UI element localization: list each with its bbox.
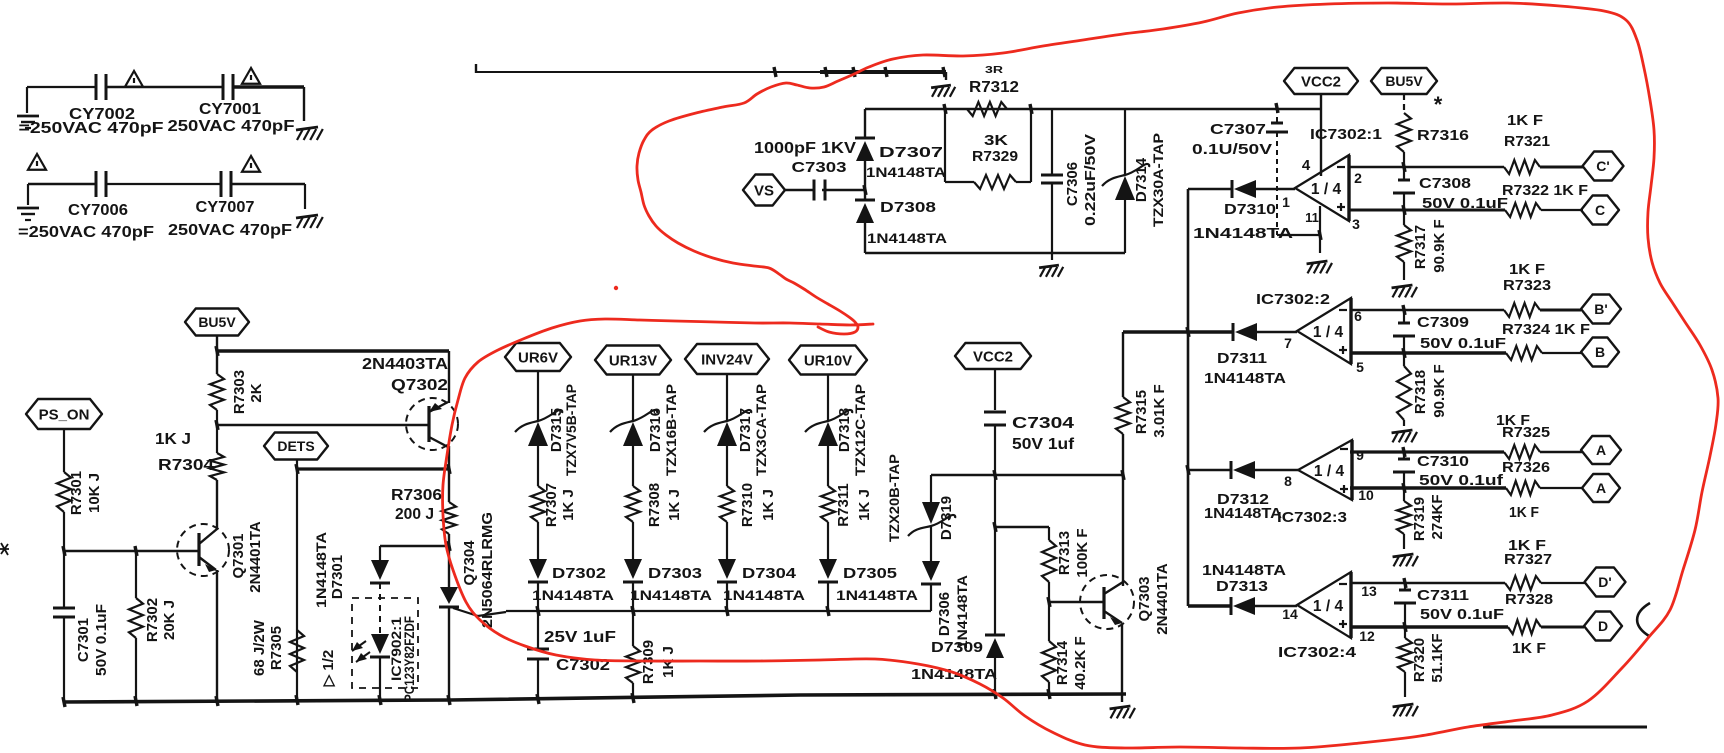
junction R7315 bottom [1122,470,1124,480]
svg-text:VCC2: VCC2 [973,348,1013,365]
wire box left vertical [944,109,946,182]
svg-text:A: A [1596,442,1606,458]
svg-text:D7306: D7306 [936,592,953,636]
junction ticks on top bus [774,67,776,77]
svg-text:274KF: 274KF [1429,494,1446,539]
paren mark [1637,603,1650,636]
svg-text:R7318: R7318 [1412,370,1429,414]
wire BU5V down [216,335,218,374]
resistor R7307 [531,486,545,522]
transistor Q7302 [406,398,458,450]
wire C7304 to node [994,425,996,475]
wire BU5V rail to Q7302 [217,349,449,352]
svg-text:B: B [1595,344,1605,360]
svg-text:0.22uF/50V: 0.22uF/50V [1082,134,1099,226]
optocoupler IC7902 LED [371,634,389,654]
svg-text:C7301: C7301 [75,618,92,662]
svg-text:14: 14 [1282,606,1298,622]
svg-text:D7314: D7314 [1133,157,1150,202]
svg-text:=250VAC 470pF: =250VAC 470pF [18,224,154,241]
wire R7323 to B' [1540,309,1581,312]
wire opto collector [380,545,449,547]
svg-text:2: 2 [1354,170,1362,186]
wire UR10V down [827,375,829,422]
svg-text:C7304: C7304 [1012,415,1074,432]
svg-text:R7304: R7304 [158,457,214,474]
diode D7307 [856,141,874,161]
wire D7313 to op-amp4 [1255,605,1297,608]
resistor R7312 [967,102,1007,116]
junction rail stage2 [1187,327,1189,337]
zener D7316 [610,410,657,432]
svg-text:2N4401TA: 2N4401TA [1154,563,1171,635]
svg-text:1N4148TA: 1N4148TA [532,587,614,603]
svg-text:R7328: R7328 [1505,591,1553,608]
wire C7306 bottom lead [1051,183,1053,253]
wire base line y551 [64,550,199,553]
svg-text:R7313: R7313 [1056,531,1073,575]
svg-text:R7317: R7317 [1412,225,1429,269]
svg-text:UR6V: UR6V [518,349,558,366]
wire Q7301 emitter to bus [216,570,218,701]
svg-text:2K: 2K [248,383,265,402]
svg-text:R7325: R7325 [1502,424,1550,441]
ground R7319 [1393,554,1414,557]
svg-text:50V 1uf: 50V 1uf [1012,436,1075,453]
diode D7313 [1230,597,1233,615]
thyristor Q7304 [448,546,450,587]
node BU5V (left) [185,309,249,336]
svg-text:TZX30A-TAP: TZX30A-TAP [1150,133,1166,227]
svg-text:D7310: D7310 [1224,201,1276,218]
svg-text:R7314: R7314 [1054,640,1071,685]
svg-text:1N4148TA: 1N4148TA [313,532,329,608]
wire VCC2 to C7304 [994,369,996,410]
wire R7327 to D' [1541,582,1585,584]
terminal B [1581,338,1619,367]
wire D7314 top lead [1124,109,1126,174]
wire node up to D7307 [864,160,866,190]
wire op-amp3 minus input [1350,450,1504,453]
svg-text:1N4148TA: 1N4148TA [836,587,918,603]
svg-text:1K F: 1K F [1509,261,1545,278]
svg-text:50V 0.1uF: 50V 0.1uF [1420,335,1506,352]
junction R7306 top [448,464,450,474]
wire op-amp3 plus input [1350,486,1506,489]
svg-text:1000pF 1KV: 1000pF 1KV [754,140,857,157]
svg-text:1N4148TA: 1N4148TA [1204,505,1282,522]
diode D7303 [624,559,642,579]
resistor R7308 [626,486,640,522]
junction plus wire stage3 [1403,483,1405,493]
diode D7310 [1231,180,1234,198]
junction C7308/plus wire [1403,205,1405,215]
svg-text:R7302: R7302 [144,598,161,642]
wire op-amp1 output [1256,188,1295,190]
resistor R7303 [210,374,224,410]
junction D7303 at bus [632,606,634,616]
junction opto collector [448,541,450,551]
svg-text:1N4148TA: 1N4148TA [1193,225,1293,242]
warning triangle row1 b [242,68,260,84]
svg-text:D7307: D7307 [879,144,943,161]
svg-text:VS: VS [754,182,774,199]
svg-text:20K J: 20K J [161,600,178,640]
svg-text:R7329: R7329 [972,148,1018,165]
diode D7308 [864,190,866,201]
terminal D [1584,612,1622,641]
diode D7304 [718,559,736,579]
wire C7306 top lead [1051,109,1053,174]
wire R7315 branch [1122,332,1124,397]
svg-text:0.1U/50V: 0.1U/50V [1192,141,1272,158]
svg-text:D7317: D7317 [737,408,754,452]
svg-text:R7305: R7305 [268,626,285,670]
wire C7303 to node [822,189,865,191]
svg-text:R7303: R7303 [231,370,248,414]
wire UR6V down [537,371,539,421]
wire row2 [28,183,96,185]
svg-text:PS_ON: PS_ON [39,406,90,423]
svg-text:25V 1uF: 25V 1uF [544,629,616,646]
svg-text:3: 3 [1352,216,1360,232]
wire R7321 to C' [1540,166,1583,169]
svg-text:1K J: 1K J [560,489,577,521]
capacitor CY7001 [222,74,225,100]
svg-text:D: D [1598,618,1608,634]
svg-text:R7316: R7316 [1417,127,1469,144]
svg-text:VCC2: VCC2 [1301,73,1341,90]
wire op-amp1 plus input [1350,209,1505,212]
svg-text:Q7302: Q7302 [391,377,448,394]
svg-text:D7319: D7319 [938,496,955,540]
wire D7312 to op-amp3 [1255,469,1298,472]
wire D7309 branch [994,475,996,635]
node UR6V [505,343,571,371]
wire Q7302 emitter up [448,351,450,403]
ground row1 right [296,127,318,130]
wire row1 [27,86,96,88]
wire Q7302 collector down [448,446,450,469]
wire PS_ON down [63,429,65,472]
svg-text:R7320: R7320 [1411,638,1428,682]
wire R7324 to B [1542,352,1582,354]
wire VCC2 down to pin 4 [1320,94,1322,176]
svg-text:1K J: 1K J [666,489,683,521]
zener D7314 [1102,164,1149,186]
junction BU5V rail [216,346,218,356]
resistor R7309 [632,611,634,646]
svg-text:3K: 3K [984,132,1008,149]
op-amp U1 IC7302:1 [1347,155,1350,221]
capacitor C7307 [1271,122,1283,125]
svg-text:2N4403TA: 2N4403TA [362,356,448,373]
red speck [614,286,618,290]
capacitor C7311 [1404,578,1406,588]
junction R7309 top [632,606,634,616]
wire to op-amp rail (thick) [1123,330,1188,334]
svg-text:50V 0.1uF: 50V 0.1uF [1420,606,1504,623]
svg-text:1N4148TA: 1N4148TA [866,164,946,180]
svg-text:UR13V: UR13V [609,352,657,369]
svg-text:1N4148TA: 1N4148TA [630,587,712,603]
svg-text:1K F: 1K F [1512,640,1546,657]
terminal C [1581,196,1619,225]
svg-text:BU5V: BU5V [198,314,236,330]
svg-text:R7307: R7307 [543,483,560,527]
wire base Q7303 [1049,601,1104,603]
wire top rail y109 [865,108,1320,110]
warning triangle row2 b [242,156,260,172]
svg-text:1K J: 1K J [760,489,777,521]
wire UR13V down [632,375,634,422]
wire op-amp4 minus input [1350,582,1505,584]
resistor R7324 [1506,346,1542,360]
zener D7315 [515,410,562,432]
resistor R7306 [448,469,450,502]
capacitor CY7007 [220,171,223,197]
diode D7311 [1232,323,1235,341]
node VS [743,175,785,206]
diode D7302 [529,559,547,579]
node PS_ON [26,399,102,429]
svg-text:D7316: D7316 [647,408,664,452]
svg-text:R7319: R7319 [1411,497,1428,541]
svg-text:TZX20B-TAP: TZX20B-TAP [886,454,902,542]
svg-text:68 J/2W: 68 J/2W [251,619,268,676]
junction R7312 box right [1030,104,1032,114]
wire D7301 to opto LED [379,583,381,636]
wire BU5V to R7316 [1403,94,1405,113]
svg-text:11: 11 [1305,210,1319,225]
wire R7326 to A [1540,487,1582,489]
svg-text:D7308: D7308 [880,199,936,216]
resistor R7325 [1504,445,1540,459]
wire INV24V down [726,374,728,421]
svg-text:Q7304: Q7304 [461,540,478,586]
resistor R7321 [1504,160,1540,174]
capacitor C7302 [537,611,539,648]
ground R7317 [1392,285,1413,288]
resistor R7314 [1048,602,1050,641]
svg-text:PC123Y82FZDF: PC123Y82FZDF [401,616,417,702]
op-amp U1 IC7302:4 [1349,572,1352,638]
wire DETS to R7306 column [297,467,449,470]
wire y527 branch [995,526,1049,528]
junction D7305 at bus [827,606,829,616]
svg-text:=250VAC 470pF: =250VAC 470pF [19,120,164,137]
svg-text:90.9K F: 90.9K F [1431,219,1448,272]
resistor R7322 [1505,203,1541,217]
svg-text:R7327: R7327 [1504,551,1552,568]
capacitor C7308 [1403,167,1405,179]
svg-text:C7307: C7307 [1210,121,1266,138]
junction C7307 tap [1276,103,1278,113]
svg-text:DETS: DETS [277,438,314,454]
zener D7319 [922,502,940,524]
wire D7311 to op-amp2 [1257,331,1297,334]
resistor R7315 [1116,397,1130,434]
transistor Q7303 [1080,575,1134,629]
optocoupler dashed box [352,598,418,688]
terminal A [1582,474,1620,502]
diode D7312 [1230,461,1233,479]
svg-text:1N4148TA: 1N4148TA [723,587,805,603]
wire op-amp2 minus input [1350,309,1504,311]
svg-text:1K F: 1K F [1509,504,1539,521]
svg-text:IC7302:2: IC7302:2 [1256,291,1330,308]
svg-text:R7301: R7301 [68,471,85,515]
svg-text:R7308: R7308 [646,483,663,527]
resistor R7313 [1048,527,1050,540]
svg-text:D': D' [1598,574,1611,590]
ground bottom bus [1121,694,1123,702]
wire horizontal y475 [931,474,1123,476]
wire D7319 column top [930,475,932,502]
capacitor C7310 [1403,447,1405,457]
terminal A' [1581,436,1621,464]
resistor R7316 [1397,113,1411,152]
svg-text:1N4148TA: 1N4148TA [954,575,970,649]
svg-text:5: 5 [1356,359,1364,375]
resistor R7326 [1506,481,1540,495]
wire box right vertical [1030,109,1032,182]
terminal B' [1581,295,1621,324]
svg-text:INV24V: INV24V [701,351,753,368]
svg-text:1: 1 [1282,194,1290,210]
wire op-amp1 minus input [1350,166,1504,168]
svg-text:1 / 4: 1 / 4 [1313,598,1344,615]
wire ground stub C7306 [1051,253,1053,260]
zener D7317 [704,410,751,432]
junction PS_ON/C7301 [63,546,65,556]
ground (earth) row1 left [17,115,39,118]
junction marks bottom bus [63,697,65,707]
svg-text:D7301: D7301 [329,555,346,599]
junction R7312 box left [944,104,946,114]
svg-text:2N4401TA: 2N4401TA [247,521,264,593]
svg-text:1N4148TA: 1N4148TA [1202,562,1286,579]
svg-text:R7312: R7312 [969,79,1019,96]
capacitor C7306 [1041,174,1063,177]
svg-text:D7305: D7305 [843,565,897,582]
node UR13V [595,346,671,375]
left margin mark [0,543,9,555]
svg-text:1N4148TA: 1N4148TA [1204,370,1286,387]
wire op-amp2 plus input [1350,351,1506,354]
svg-text:TZX12C-TAP: TZX12C-TAP [852,384,868,476]
resistor R7301 [57,472,71,512]
svg-text:1 / 4: 1 / 4 [1313,324,1344,341]
zener D7318 [805,410,852,432]
node VCC2 (top) [1284,68,1358,94]
junction D7304 at bus [726,606,728,616]
terminal C' [1583,152,1624,181]
svg-text:100K F: 100K F [1074,528,1091,577]
capacitor C7304 [984,411,1006,414]
svg-text:1 / 4: 1 / 4 [1314,463,1345,480]
ground R7320 [1393,704,1414,707]
svg-text:13: 13 [1361,583,1377,599]
wire VS to C7303 [785,189,813,191]
terminal D' [1585,568,1626,597]
capacitor C7301 [63,551,65,607]
svg-text:7: 7 [1284,335,1292,351]
junction pin11/C7307 [1319,230,1321,240]
junction R7302 tap [135,546,137,556]
svg-text:D7303: D7303 [648,565,702,582]
svg-text:D7318: D7318 [836,408,853,452]
node UR10V [789,346,867,375]
svg-text:UR10V: UR10V [804,352,852,369]
wire rail corner to D7313 [1188,604,1231,608]
svg-text:1K J: 1K J [856,489,873,521]
resistor R7328 [1508,620,1541,634]
node DETS [264,433,328,460]
resistor R7305 [290,630,304,672]
resistor R7304 [216,425,218,453]
node BU5V (top) [1371,68,1437,94]
svg-text:D7302: D7302 [552,565,606,582]
junction D7302 at bus [537,606,539,616]
resistor R7311 [821,486,835,522]
resistor R7318 [1403,353,1405,366]
svg-text:9: 9 [1356,447,1364,463]
resistor R7317 [1403,210,1405,225]
svg-text:4: 4 [1302,157,1311,174]
op-amp U1 IC7302:3 [1350,440,1353,500]
svg-text:D7311: D7311 [1217,350,1267,367]
node INV24V [685,344,769,374]
svg-text:C7308: C7308 [1419,175,1471,192]
svg-text:CY7001: CY7001 [199,101,261,118]
wire R7322 to C [1541,209,1583,211]
ground top bus [931,85,951,88]
wire bottom-right segment [1483,726,1647,729]
diode D7309 [986,638,1004,658]
svg-text:51.1KF: 51.1KF [1429,633,1446,682]
svg-text:TZX16B-TAP: TZX16B-TAP [663,384,679,476]
svg-text:40.2K F: 40.2K F [1072,636,1089,689]
svg-text:C7309: C7309 [1417,314,1469,331]
junction R7316/minus wire [1403,162,1405,172]
svg-text:200 J: 200 J [395,506,434,523]
svg-text:R7311: R7311 [835,483,852,526]
wire bottom rail y253 [865,252,1125,254]
svg-text:B': B' [1594,301,1607,317]
svg-text:3R: 3R [985,65,1004,76]
junction DETS wire [296,464,298,474]
svg-text:250VAC 470pF: 250VAC 470pF [168,222,292,239]
wire op-amp4 plus input [1350,625,1508,628]
junction at D7307/D7308 node [864,185,866,195]
junction C7304 bottom [994,470,996,480]
svg-text:▷ 1/2: ▷ 1/2 [320,650,337,688]
svg-text:IC7302:1: IC7302:1 [1310,126,1382,143]
wire C7307 top lead [1276,108,1278,122]
resistor R7320 [1404,627,1406,638]
resistor R7319 [1403,488,1405,501]
svg-text:R7326: R7326 [1502,459,1550,476]
capacitor C7309 [1403,305,1405,315]
svg-text:IC7302:4: IC7302:4 [1278,644,1357,661]
warning triangle row1 a [125,71,143,87]
junction y527 [994,522,996,532]
svg-text:1N4148TA: 1N4148TA [911,666,997,683]
node VCC2 (middle) [955,343,1031,369]
wire op-amp input rail [1187,189,1190,606]
svg-text:1K F: 1K F [1507,112,1543,129]
